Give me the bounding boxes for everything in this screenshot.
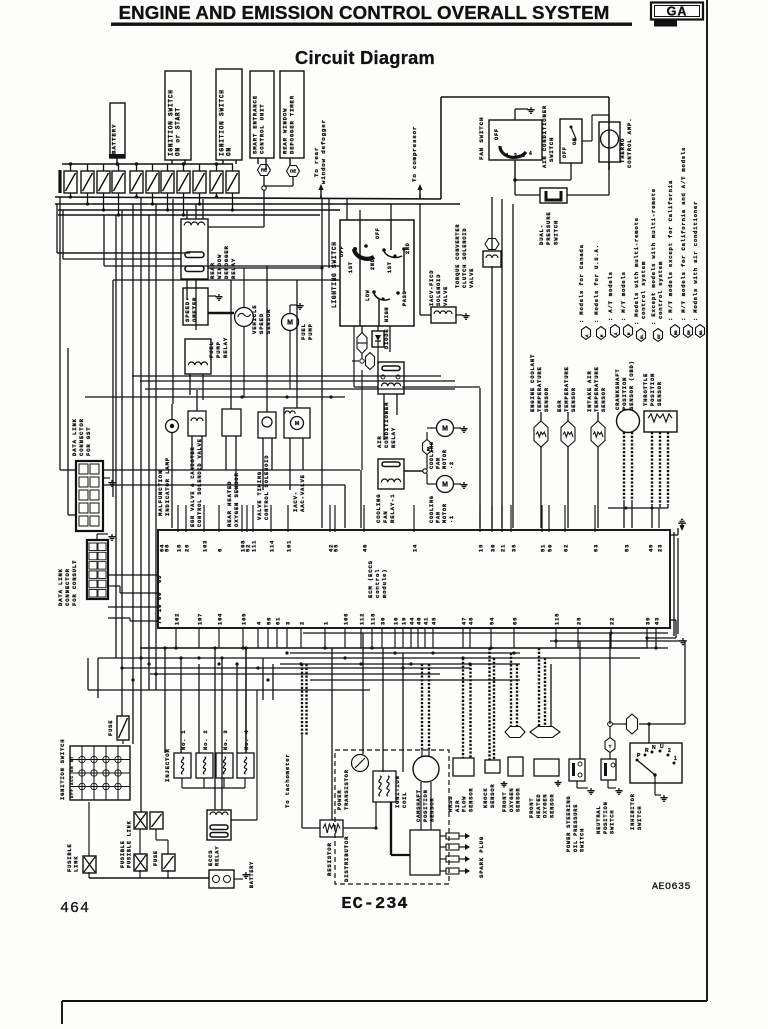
svg-text:REAR HEATED: REAR HEATED	[226, 481, 233, 527]
svg-text:109: 109	[242, 613, 248, 625]
svg-text:30: 30	[381, 617, 387, 625]
svg-text:M: M	[295, 421, 300, 427]
svg-text:21: 21	[501, 544, 507, 552]
svg-text:COOLING: COOLING	[375, 494, 382, 523]
svg-text:48: 48	[469, 617, 475, 625]
svg-text:18: 18	[177, 544, 183, 552]
svg-text:SENSOR (OBD): SENSOR (OBD)	[628, 360, 635, 410]
svg-text:45: 45	[432, 617, 438, 625]
svg-text:ENGINE COOLANT: ENGINE COOLANT	[529, 354, 536, 412]
svg-text:MOTOR: MOTOR	[442, 449, 448, 469]
svg-text:M: M	[442, 426, 448, 433]
svg-text:control system: control system	[657, 261, 664, 319]
svg-text:control: control	[374, 569, 381, 598]
svg-text:66: 66	[513, 617, 519, 625]
svg-text:TEMPERATURE: TEMPERATURE	[563, 366, 570, 412]
svg-text:101: 101	[287, 540, 293, 552]
svg-text:EC-234: EC-234	[341, 895, 408, 914]
svg-text:control system: control system	[640, 261, 647, 319]
svg-text:INJECTOR: INJECTOR	[164, 748, 171, 782]
svg-text:FAN: FAN	[436, 457, 442, 469]
svg-text:POSITION: POSITION	[423, 789, 429, 822]
svg-text:IACV-FICD: IACV-FICD	[429, 270, 435, 306]
svg-text:POSITION: POSITION	[649, 373, 656, 406]
svg-text:FAN: FAN	[436, 511, 442, 523]
svg-text:BATTERY: BATTERY	[249, 861, 255, 888]
svg-text:REAR WINDOW: REAR WINDOW	[282, 108, 289, 154]
svg-text:65: 65	[157, 575, 163, 583]
svg-text:OE: OE	[658, 334, 662, 339]
svg-text:CONTROL AMP.: CONTROL AMP.	[626, 118, 633, 168]
svg-text:AAC-VALVE: AAC-VALVE	[299, 474, 306, 512]
svg-text:FLOW: FLOW	[462, 796, 468, 812]
svg-text:FRONT: FRONT	[529, 798, 535, 818]
svg-text:35: 35	[512, 544, 518, 552]
svg-text:SWITCH: SWITCH	[552, 220, 559, 245]
svg-text:: Models for Canada: : Models for Canada	[578, 244, 585, 323]
svg-text:FUEL: FUEL	[208, 341, 215, 358]
svg-text:VALVE TIMING: VALVE TIMING	[257, 471, 263, 520]
svg-text:EM: EM	[688, 330, 692, 335]
svg-text:51: 51	[541, 544, 547, 552]
svg-text:To tachometer: To tachometer	[284, 753, 291, 808]
svg-text:OFF: OFF	[562, 146, 568, 158]
svg-text:RELAY: RELAY	[215, 846, 221, 866]
svg-text:PRESSURE: PRESSURE	[545, 211, 552, 245]
svg-text:OFF: OFF	[339, 245, 345, 257]
svg-text:IGNITION SWITCH: IGNITION SWITCH	[60, 739, 66, 800]
svg-text:SENSOR: SENSOR	[549, 793, 555, 818]
svg-text:1ST: 1ST	[348, 261, 354, 273]
svg-text:FOR CONSULT: FOR CONSULT	[71, 560, 78, 606]
svg-text:·2: ·2	[449, 461, 455, 469]
svg-text:6: 6	[218, 548, 224, 552]
svg-text:RELAY: RELAY	[222, 337, 229, 358]
svg-text:70: 70	[157, 616, 163, 624]
svg-text:: Models with air conditioner: : Models with air conditioner	[692, 201, 699, 321]
svg-text:THROTTLE: THROTTLE	[642, 373, 649, 406]
svg-text:RESISTOR: RESISTOR	[326, 842, 333, 876]
svg-text:R: R	[645, 748, 649, 754]
svg-text:SENSOR: SENSOR	[265, 309, 272, 334]
svg-text:2: 2	[514, 153, 517, 159]
svg-text:OE: OE	[290, 169, 297, 174]
svg-text:·1: ·1	[449, 515, 455, 523]
svg-text:INHIBITOR: INHIBITOR	[630, 793, 636, 830]
svg-text:SENSOR: SENSOR	[570, 387, 577, 412]
svg-text:FUEL: FUEL	[300, 323, 307, 340]
svg-text:SMART ENTRANCE: SMART ENTRANCE	[252, 95, 259, 154]
svg-text:: M/T models except for Califo: : M/T models except for California	[667, 180, 674, 321]
svg-text:MALFUNCTION: MALFUNCTION	[157, 470, 164, 516]
svg-text:PUMP: PUMP	[307, 323, 314, 340]
svg-text:FUSE: FUSE	[108, 720, 114, 736]
svg-text:AIR: AIR	[376, 435, 383, 448]
svg-text:102: 102	[175, 613, 181, 625]
svg-text:SWITCH: SWITCH	[637, 805, 643, 830]
svg-text:MOTOR: MOTOR	[442, 503, 448, 523]
svg-text:43: 43	[655, 617, 661, 625]
svg-text:SPEED: SPEED	[258, 313, 265, 334]
svg-text:SPARK PLUG: SPARK PLUG	[478, 836, 485, 878]
svg-text:BATTERY: BATTERY	[111, 124, 118, 154]
svg-text:50: 50	[548, 544, 554, 552]
svg-text:window defogger: window defogger	[320, 119, 327, 184]
svg-text:CONTROL SOLENOID: CONTROL SOLENOID	[264, 455, 270, 520]
svg-text:IGNITION: IGNITION	[395, 775, 401, 808]
svg-text:BL: BL	[641, 334, 645, 339]
svg-text:AIR: AIR	[455, 800, 461, 812]
svg-text:OFF: OFF	[494, 128, 500, 140]
svg-text:115: 115	[555, 613, 561, 625]
svg-text:OXYGEN: OXYGEN	[509, 787, 515, 812]
svg-text:1: 1	[506, 153, 509, 159]
svg-text:SWITCH: SWITCH	[580, 828, 586, 852]
svg-text:LIGHTING SWITCH: LIGHTING SWITCH	[331, 241, 338, 308]
svg-text:SENSOR: SENSOR	[600, 387, 607, 412]
svg-text:: Models with multi-remote: : Models with multi-remote	[633, 217, 640, 325]
svg-text:SENSOR: SENSOR	[490, 783, 496, 808]
svg-text:No. 3: No. 3	[223, 730, 229, 750]
svg-text:module): module)	[381, 569, 388, 598]
svg-text:FAN SWITCH: FAN SWITCH	[478, 117, 485, 160]
svg-text:ECM (ECCS: ECM (ECCS	[367, 560, 374, 598]
svg-text:DIODE: DIODE	[384, 329, 390, 349]
svg-text:4: 4	[257, 621, 263, 625]
svg-text:ENGINE AND EMISSION CONTROL OV: ENGINE AND EMISSION CONTROL OVERALL SYST…	[119, 2, 610, 23]
svg-text:: A/T models: : A/T models	[607, 271, 614, 321]
svg-text:: M/T models: : M/T models	[620, 271, 627, 321]
svg-text:TEMPERATURE: TEMPERATURE	[536, 366, 543, 412]
svg-text:TRANSISTOR: TRANSISTOR	[344, 769, 350, 810]
svg-text:INTAKE AIR: INTAKE AIR	[586, 370, 593, 412]
svg-text:49: 49	[649, 544, 655, 552]
svg-text:DEFOGGER: DEFOGGER	[223, 245, 230, 279]
svg-text:1ST: 1ST	[387, 261, 393, 273]
svg-text:DATA LINK: DATA LINK	[71, 418, 78, 456]
svg-text:SOLENOID: SOLENOID	[436, 274, 442, 306]
svg-text:PASS: PASS	[402, 291, 408, 306]
svg-text:FRONT: FRONT	[502, 792, 508, 812]
svg-text:40: 40	[417, 617, 423, 625]
svg-text:MASS: MASS	[448, 796, 454, 812]
svg-text:4: 4	[529, 151, 532, 157]
svg-text:POSITION: POSITION	[621, 377, 628, 410]
svg-text:MA: MA	[700, 330, 704, 335]
svg-text:22: 22	[610, 617, 616, 625]
svg-text:111: 111	[252, 540, 258, 552]
svg-text:AIR CONDITIONER: AIR CONDITIONER	[541, 105, 548, 168]
svg-text:DATA LINK: DATA LINK	[57, 568, 64, 606]
svg-text:T: T	[609, 744, 612, 749]
svg-text:NEUTRAL: NEUTRAL	[596, 805, 602, 834]
svg-text:No. 2: No. 2	[203, 730, 209, 750]
svg-text:SWITCH: SWITCH	[548, 137, 555, 162]
svg-text:1: 1	[324, 621, 330, 625]
svg-text:: Models for U.S.A.: : Models for U.S.A.	[593, 244, 600, 323]
svg-text:53: 53	[625, 544, 631, 552]
svg-text:54: 54	[490, 617, 496, 625]
svg-text:30: 30	[491, 544, 497, 552]
svg-text:MR: MR	[675, 330, 679, 335]
svg-text:M: M	[442, 482, 448, 489]
svg-text:IGNITION SWITCH: IGNITION SWITCH	[219, 89, 226, 156]
svg-text:118: 118	[371, 613, 377, 625]
svg-text:COIL: COIL	[402, 792, 408, 808]
svg-text:CONTROL UNIT: CONTROL UNIT	[259, 104, 266, 154]
svg-text:106: 106	[344, 613, 350, 625]
svg-text:COOLING: COOLING	[429, 441, 435, 469]
svg-text:M: M	[287, 320, 293, 327]
svg-text:15: 15	[479, 544, 485, 552]
svg-text:114: 114	[270, 540, 276, 552]
svg-text:GA: GA	[667, 5, 688, 19]
svg-text:112: 112	[360, 613, 366, 625]
svg-text:63: 63	[594, 544, 600, 552]
svg-text:ON: ON	[226, 147, 233, 156]
svg-text:41: 41	[424, 617, 430, 625]
svg-text:47: 47	[462, 617, 468, 625]
svg-text:58: 58	[165, 544, 171, 552]
svg-text:20: 20	[157, 604, 163, 612]
svg-text:SENSOR: SENSOR	[656, 381, 663, 406]
svg-text:SPEED-: SPEED-	[184, 297, 191, 322]
svg-text:EGR VALVE & CANISTER: EGR VALVE & CANISTER	[190, 446, 196, 527]
svg-text:N: N	[652, 745, 656, 751]
svg-text:DEFOGGER TIMER: DEFOGGER TIMER	[289, 95, 296, 154]
svg-text:1: 1	[674, 756, 677, 762]
svg-text:FUSIBLE: FUSIBLE	[67, 843, 73, 872]
svg-text:23: 23	[658, 544, 664, 552]
svg-text:25: 25	[577, 617, 583, 625]
svg-text:SWITCH: SWITCH	[610, 809, 616, 834]
svg-text:104: 104	[218, 613, 224, 625]
svg-text:61: 61	[276, 617, 282, 625]
svg-text:DUAL-: DUAL-	[538, 224, 545, 245]
svg-text:RELAY-1: RELAY-1	[389, 494, 396, 523]
svg-text:THERMO: THERMO	[619, 138, 626, 163]
svg-text:OFF: OFF	[375, 227, 381, 239]
svg-text:464: 464	[60, 900, 90, 917]
svg-text:SENSOR: SENSOR	[516, 787, 522, 812]
svg-text:SENSOR: SENSOR	[468, 787, 474, 812]
svg-text:26: 26	[185, 544, 191, 552]
svg-text:OXYGEN: OXYGEN	[543, 793, 549, 818]
svg-text:: M/T models for California an: : M/T models for California and A/T mode…	[680, 147, 687, 321]
svg-text:OIL PRESSURE: OIL PRESSURE	[573, 804, 579, 852]
svg-text:No. 4: No. 4	[244, 730, 250, 750]
svg-text:TEMPERATURE: TEMPERATURE	[593, 366, 600, 412]
svg-text:Circuit Diagram: Circuit Diagram	[295, 48, 435, 68]
svg-text:To compressor: To compressor	[411, 126, 418, 182]
svg-text:POWER: POWER	[337, 790, 343, 810]
svg-text:PUMP: PUMP	[215, 341, 222, 358]
svg-text:40: 40	[363, 544, 369, 552]
svg-text:IACV-: IACV-	[292, 491, 299, 512]
svg-text:62: 62	[564, 544, 570, 552]
svg-text:3: 3	[286, 621, 292, 625]
svg-text:CONNECTOR: CONNECTOR	[78, 418, 85, 456]
svg-text:To rear: To rear	[313, 147, 320, 177]
svg-text:55: 55	[334, 544, 340, 552]
svg-text:EGR: EGR	[556, 400, 563, 412]
svg-text:CRANKSHAFT: CRANKSHAFT	[614, 368, 621, 410]
svg-text:U: U	[660, 744, 664, 750]
svg-text:107: 107	[198, 613, 204, 625]
svg-text:POWER STEERING: POWER STEERING	[566, 796, 572, 852]
svg-text:LINK: LINK	[74, 856, 80, 872]
svg-text:10: 10	[394, 617, 400, 625]
svg-text:OMETER: OMETER	[191, 297, 198, 322]
svg-text:HEATED: HEATED	[536, 793, 542, 818]
svg-text:39: 39	[646, 617, 652, 625]
svg-text:AEO635: AEO635	[652, 882, 691, 893]
svg-text:DISTRIBUTOR: DISTRIBUTOR	[343, 836, 350, 882]
svg-text:ON or START: ON or START	[175, 107, 182, 156]
svg-text:2: 2	[300, 621, 306, 625]
svg-text:SENSOR: SENSOR	[543, 387, 550, 412]
svg-text:INDICATOR LAMP: INDICATOR LAMP	[164, 457, 171, 516]
svg-text:No. 1: No. 1	[181, 730, 187, 750]
svg-text:KNOCK: KNOCK	[483, 788, 489, 808]
svg-text:14: 14	[413, 544, 419, 552]
svg-text:56: 56	[267, 617, 273, 625]
svg-text:CLUTCH SOLENOID: CLUTCH SOLENOID	[462, 228, 468, 288]
svg-text:2ND: 2ND	[405, 242, 411, 254]
svg-text:3: 3	[522, 153, 525, 159]
svg-text:FUSIBLE LINK: FUSIBLE LINK	[126, 820, 132, 868]
svg-text:FUSIBLE: FUSIBLE	[120, 840, 126, 868]
svg-text:FOR GST: FOR GST	[85, 427, 92, 456]
svg-text:RE: RE	[261, 168, 267, 173]
svg-text:VEHICLE: VEHICLE	[251, 305, 258, 334]
svg-text:ECCS: ECCS	[208, 850, 214, 866]
svg-text:VALVE: VALVE	[469, 268, 475, 288]
svg-text:44: 44	[410, 617, 416, 625]
svg-text:COOLING: COOLING	[429, 495, 435, 523]
svg-text:TORQUE CONVERTER: TORQUE CONVERTER	[455, 224, 461, 288]
svg-text:HIGH: HIGH	[384, 307, 390, 322]
svg-text:103: 103	[203, 540, 209, 552]
svg-text:FAN: FAN	[382, 510, 389, 523]
svg-text:FUSE: FUSE	[153, 850, 159, 866]
svg-text:REAR: REAR	[209, 262, 216, 279]
svg-text:RELAY: RELAY	[390, 427, 397, 448]
svg-text:IGNITION SWITCH: IGNITION SWITCH	[168, 89, 175, 156]
svg-text:CONNECTOR: CONNECTOR	[64, 568, 71, 606]
svg-text:: Except models with multi-rem: : Except models with multi-remote	[650, 188, 657, 325]
svg-text:19: 19	[402, 617, 408, 625]
svg-text:VALVE: VALVE	[443, 286, 449, 306]
svg-text:2: 2	[668, 748, 671, 754]
svg-text:OFF ACC ON ST: OFF ACC ON ST	[71, 756, 75, 798]
svg-text:POSITION: POSITION	[603, 801, 609, 834]
svg-text:LOW: LOW	[365, 289, 371, 301]
